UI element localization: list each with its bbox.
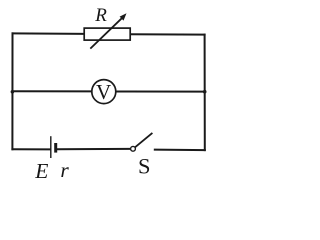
- wire middle-right segment: [116, 91, 205, 93]
- battery E,r : long plate: [50, 136, 52, 158]
- label S: [138, 153, 151, 178]
- resistor R (rheostat): [84, 13, 130, 48]
- wire bottom-right segment: [155, 149, 205, 152]
- junction right-middle node: [203, 90, 207, 94]
- wire left vertical: [11, 33, 13, 149]
- svg-text:E: E: [34, 159, 48, 183]
- svg-text:V: V: [96, 80, 111, 104]
- svg-text:S: S: [138, 153, 151, 178]
- svg-text:r: r: [60, 158, 69, 182]
- label E: [34, 159, 48, 183]
- junction left-middle node: [11, 90, 15, 94]
- label R: [94, 5, 107, 26]
- wire battery-to-switch segment: [57, 148, 131, 150]
- wire top-right segment: [130, 33, 205, 35]
- wire bottom-left segment: [12, 148, 50, 150]
- switch S: [131, 133, 153, 151]
- wire top-left segment: [13, 32, 85, 35]
- wire middle-left segment: [12, 90, 92, 92]
- svg-text:R: R: [94, 5, 107, 26]
- voltmeter V: [92, 80, 116, 105]
- label r: [60, 158, 69, 182]
- battery E,r : short thick plate: [54, 143, 57, 153]
- wire right vertical: [204, 35, 206, 151]
